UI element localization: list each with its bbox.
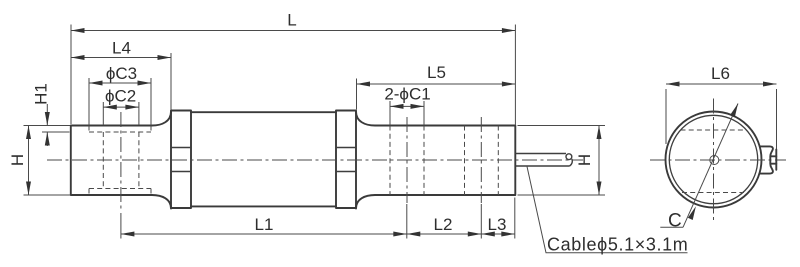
svg-text:L6: L6 [711,64,730,83]
C leader line [683,104,738,228]
C leader arrowheads [688,206,696,220]
cable boot ear [760,146,777,173]
ring 2 groove lines [336,148,356,172]
svg-text:ϕC3: ϕC3 [106,64,137,83]
ring 2 [336,111,356,209]
dim L [71,11,515,34]
cable boot end face [775,149,777,169]
extension lines L6 [666,89,777,150]
dim L6 [666,64,777,87]
main cylinder [191,112,336,206]
extension lines top [71,25,515,126]
dim L4 [71,39,171,61]
end view outer circle [666,112,762,208]
ring 1 [171,111,191,209]
centerline hole C1b [480,117,482,203]
centerline left hole [120,112,122,211]
end view centerlines [650,99,786,222]
hidden holes C1 edges [390,126,498,196]
dim L3 [481,215,515,237]
end view center hole [710,156,719,165]
svg-text:L5: L5 [427,63,446,82]
extension lines bottom [121,198,515,239]
svg-text:L: L [287,11,296,30]
svg-text:L1: L1 [255,215,274,234]
extension lines left H/H1 [24,126,71,196]
dim H1 [32,83,51,146]
svg-text:L3: L3 [488,215,507,234]
centerline hole C1a [406,117,408,203]
svg-text:H1: H1 [32,83,51,105]
svg-text:ϕC2: ϕC2 [105,87,136,106]
centerline main axis [47,159,583,161]
svg-text:H: H [575,154,594,166]
dim L1 [121,215,407,237]
dim phiC2 [103,87,139,110]
cable end circle [566,154,572,160]
C underline [660,226,683,228]
hidden hole C3 edges [89,126,151,196]
dim L5 [357,63,516,87]
svg-text:L2: L2 [434,215,453,234]
body right section with fillets [356,112,515,209]
hidden recess lines [89,132,151,189]
cable shaft [515,154,572,167]
end view inner circle [669,115,757,203]
svg-text:H: H [8,154,27,166]
dim H right [575,126,602,196]
cable leader [527,167,688,253]
end view hidden chords [681,130,747,193]
ring 1 groove lines [171,148,191,172]
dim H left [8,126,31,196]
hidden hole C2 edges [103,132,139,189]
dim phiC3 [89,64,151,86]
body left section with fillets [71,112,171,209]
svg-text:2-ϕC1: 2-ϕC1 [384,85,430,104]
svg-text:Cableϕ5.1×3.1m: Cableϕ5.1×3.1m [547,235,688,255]
dim 2-phiC1 [384,85,430,109]
svg-text:C: C [668,211,682,232]
dim L2 [407,215,482,237]
svg-text:L4: L4 [112,39,131,58]
extension lines right H [518,126,606,196]
